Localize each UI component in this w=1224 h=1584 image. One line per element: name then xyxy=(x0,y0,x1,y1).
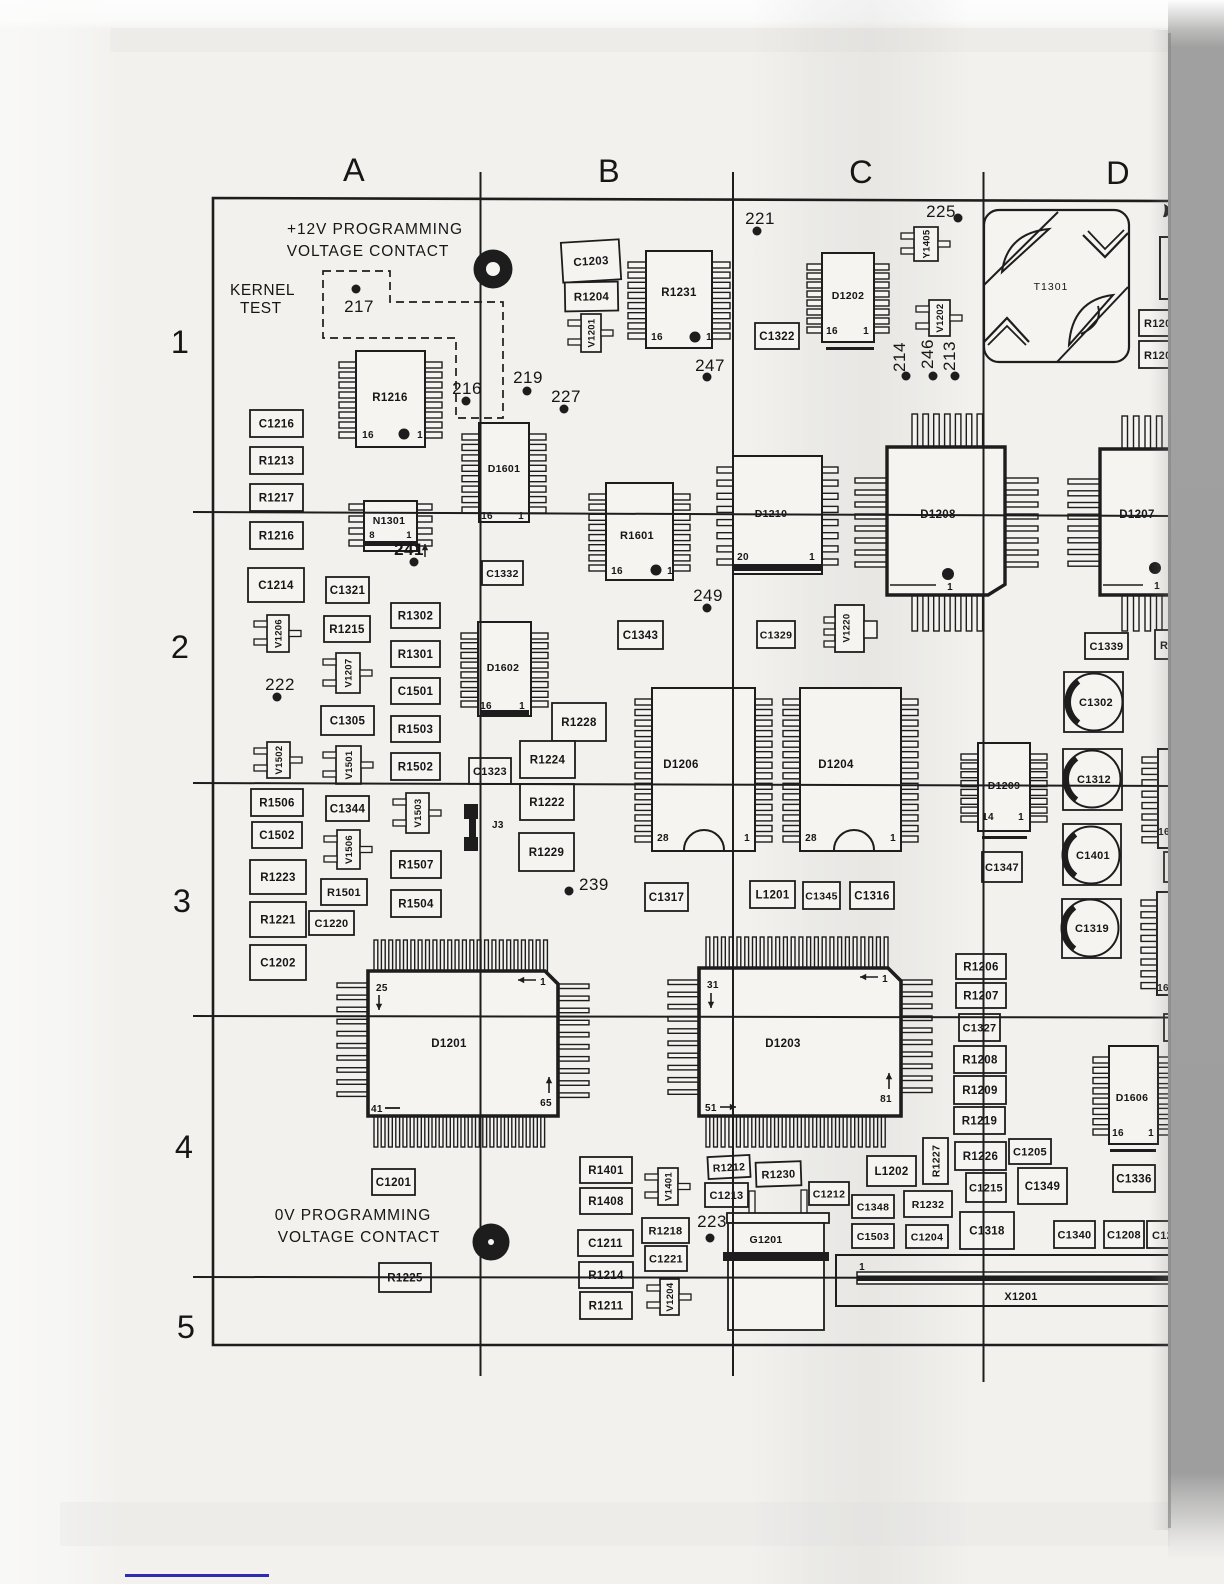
svg-text:C1213: C1213 xyxy=(710,1190,744,1202)
svg-text:D1204: D1204 xyxy=(818,759,854,771)
capacitor C1302 xyxy=(1064,672,1123,732)
svg-text:R1232: R1232 xyxy=(912,1199,944,1211)
resistor network R1231 xyxy=(628,251,730,348)
test point 217 xyxy=(344,285,374,317)
capacitor C1321 xyxy=(326,577,369,603)
svg-text:16: 16 xyxy=(826,326,838,337)
capacitor C1501 xyxy=(391,678,440,704)
capacitor C1348 xyxy=(852,1195,894,1218)
transistor V1202 xyxy=(916,300,962,336)
IC D1210 xyxy=(717,456,838,574)
svg-text:R1216: R1216 xyxy=(259,531,294,543)
svg-text:1: 1 xyxy=(859,1262,865,1273)
capacitor C1341 (clipped) xyxy=(1164,1014,1204,1041)
svg-text:VOLTAGE CONTACT: VOLTAGE CONTACT xyxy=(287,243,449,260)
svg-text:D1606: D1606 xyxy=(1116,1092,1148,1104)
transistor V1501 xyxy=(323,746,373,784)
IC D1204 xyxy=(783,688,918,851)
svg-text:B: B xyxy=(598,153,620,189)
capacitor C1503 xyxy=(852,1224,894,1248)
svg-text:C: C xyxy=(849,154,873,190)
test point 227 xyxy=(551,387,581,414)
test point 214 xyxy=(890,342,911,380)
test point 249 xyxy=(693,586,723,613)
capacitor C1312 xyxy=(1063,749,1122,810)
svg-text:R1504: R1504 xyxy=(398,899,434,911)
svg-text:R1219: R1219 xyxy=(962,1116,997,1128)
svg-text:222: 222 xyxy=(265,675,295,694)
svg-text:V1501: V1501 xyxy=(344,750,355,779)
grid line C/D xyxy=(983,172,985,1382)
resistor R1204 xyxy=(565,282,618,312)
capacitor C1211 xyxy=(578,1230,633,1256)
svg-text:C1336: C1336 xyxy=(1116,1174,1151,1186)
svg-text:R1222: R1222 xyxy=(529,797,564,809)
svg-text:4: 4 xyxy=(175,1129,193,1165)
svg-text:C1215: C1215 xyxy=(969,1183,1003,1195)
svg-text:5: 5 xyxy=(177,1309,195,1345)
svg-text:1: 1 xyxy=(171,324,189,360)
IC D1602 xyxy=(461,622,548,716)
column label C xyxy=(849,154,873,190)
svg-text:V1220: V1220 xyxy=(842,614,853,643)
IC D1605 (clipped) xyxy=(1142,749,1200,848)
resistor R1222 xyxy=(520,784,574,820)
IC D1203 xyxy=(668,937,932,1147)
inductor L1201 xyxy=(750,881,795,908)
svg-text:V1206: V1206 xyxy=(274,619,285,648)
svg-text:R1204: R1204 xyxy=(574,291,610,304)
resistor R1502 xyxy=(391,753,440,780)
svg-text:D1203: D1203 xyxy=(765,1038,800,1050)
transistor V1503 xyxy=(393,793,441,833)
svg-text:C1502: C1502 xyxy=(259,830,294,842)
svg-text:V1506: V1506 xyxy=(344,835,355,864)
svg-text:Y1405: Y1405 xyxy=(922,229,933,258)
svg-text:C1343: C1343 xyxy=(623,630,658,642)
resistor R1203 (clipped) xyxy=(1139,341,1185,368)
svg-text:C1204: C1204 xyxy=(911,1232,943,1244)
resistor R1208 xyxy=(954,1046,1006,1073)
svg-text:219: 219 xyxy=(513,368,543,387)
transistor V1401 xyxy=(645,1168,690,1205)
test point 223 xyxy=(697,1212,727,1243)
capacitor C1215 xyxy=(966,1173,1006,1202)
grid line 3/4 xyxy=(193,1016,1170,1018)
svg-text:241: 241 xyxy=(394,540,424,559)
svg-text:R1229: R1229 xyxy=(529,847,564,859)
svg-text:C1340: C1340 xyxy=(1058,1230,1092,1242)
svg-text:213: 213 xyxy=(940,341,959,371)
test point 225 xyxy=(926,202,962,223)
via 0V programming contact xyxy=(473,1224,510,1261)
svg-text:R1216: R1216 xyxy=(372,392,407,404)
svg-text:1: 1 xyxy=(706,332,712,343)
svg-text:R1228: R1228 xyxy=(561,717,597,729)
svg-text:R1213: R1213 xyxy=(259,456,294,468)
capacitor C1347 xyxy=(982,852,1022,882)
svg-text:V1502: V1502 xyxy=(274,746,285,775)
test point 241 xyxy=(394,540,424,567)
svg-text:8: 8 xyxy=(369,530,375,541)
svg-text:28: 28 xyxy=(805,833,817,844)
svg-text:R1206: R1206 xyxy=(963,962,998,974)
resistor R1501 xyxy=(321,879,367,905)
svg-text:3: 3 xyxy=(173,883,191,919)
svg-text:C1322: C1322 xyxy=(759,331,794,343)
svg-text:223: 223 xyxy=(697,1212,727,1231)
test point 213 xyxy=(940,341,960,380)
resistor R1206 xyxy=(956,954,1006,979)
resistor R1408 xyxy=(580,1188,632,1214)
svg-text:D1602: D1602 xyxy=(487,662,519,674)
resistor R1213 xyxy=(250,447,303,474)
svg-text:1: 1 xyxy=(417,430,423,441)
svg-text:R1208: R1208 xyxy=(962,1055,998,1067)
grid line 4/5 xyxy=(193,1277,1170,1278)
svg-text:1: 1 xyxy=(1018,812,1024,823)
svg-text:C1312: C1312 xyxy=(1077,774,1111,786)
row label 2 xyxy=(171,629,189,665)
IC D1206 xyxy=(635,688,772,851)
svg-text:216: 216 xyxy=(452,379,482,398)
svg-text:16: 16 xyxy=(611,566,623,577)
svg-text:31: 31 xyxy=(707,980,719,991)
svg-text:V1201: V1201 xyxy=(587,318,598,347)
svg-text:1: 1 xyxy=(744,833,750,844)
svg-text:R1302: R1302 xyxy=(398,611,433,623)
page edge gray band xyxy=(1150,0,1224,1584)
svg-text:C1501: C1501 xyxy=(398,686,434,698)
test point 239 xyxy=(565,875,609,896)
capacitor C1204 xyxy=(906,1225,948,1248)
capacitor C1336 xyxy=(1113,1165,1155,1192)
ink fleck at page edge xyxy=(1163,204,1169,217)
svg-text:C1339: C1339 xyxy=(1090,641,1124,653)
label kernel test line 1 xyxy=(230,282,295,299)
notch of D1206 xyxy=(684,830,724,850)
capacitor C1401 xyxy=(1063,824,1122,885)
svg-text:221: 221 xyxy=(745,209,775,228)
svg-text:R1218: R1218 xyxy=(649,1226,683,1238)
svg-text:D1202: D1202 xyxy=(832,290,864,302)
svg-text:R1207: R1207 xyxy=(963,991,998,1003)
svg-text:D1601: D1601 xyxy=(488,463,520,475)
svg-text:1: 1 xyxy=(519,701,525,712)
IC D1607 (clipped) xyxy=(1141,892,1199,995)
svg-text:2: 2 xyxy=(171,629,189,665)
resistor R1401 xyxy=(580,1157,632,1183)
resistor R1224 xyxy=(520,741,575,778)
svg-text:28: 28 xyxy=(657,833,669,844)
transistor V1502 xyxy=(254,742,302,778)
svg-text:TEST: TEST xyxy=(240,300,282,317)
svg-text:65: 65 xyxy=(540,1098,552,1109)
inductor L1202 xyxy=(867,1156,916,1186)
svg-text:C1316: C1316 xyxy=(854,891,889,903)
svg-text:1: 1 xyxy=(882,974,888,985)
IC D1601 xyxy=(462,423,546,522)
svg-text:C1321: C1321 xyxy=(330,585,366,597)
test point 219 xyxy=(513,368,543,396)
label 0V programming voltage contact line 1 xyxy=(275,1207,431,1224)
IC D1207 xyxy=(1068,416,1224,631)
board outline border xyxy=(213,198,1170,1345)
resistor R1214 xyxy=(579,1262,633,1288)
svg-text:C1203: C1203 xyxy=(573,255,609,269)
resistor R1507 xyxy=(391,851,441,878)
svg-text:R1224: R1224 xyxy=(530,755,566,767)
transistor V1207 xyxy=(323,653,372,693)
svg-text:214: 214 xyxy=(890,342,909,372)
grid line 2/3 xyxy=(193,783,1170,786)
capacitor C1332 xyxy=(482,561,523,585)
svg-text:R1408: R1408 xyxy=(588,1196,624,1208)
grid line A/B xyxy=(480,172,482,1376)
capacitor C1212 xyxy=(809,1182,849,1205)
transistor V1206 xyxy=(254,615,301,652)
resistor network R1216 xyxy=(339,351,442,447)
capacitor C1323 xyxy=(469,758,511,784)
notch of D1204 xyxy=(834,830,874,850)
svg-text:T1301: T1301 xyxy=(1034,281,1069,293)
column label D xyxy=(1106,155,1130,191)
svg-text:V1207: V1207 xyxy=(344,659,355,688)
svg-text:227: 227 xyxy=(551,387,581,406)
row label 1 xyxy=(171,324,189,360)
resistor R1217 xyxy=(250,484,303,511)
svg-text:V1204: V1204 xyxy=(665,1282,676,1311)
transistor V1220 xyxy=(824,605,877,652)
test point 216 xyxy=(452,379,482,406)
resistor R1221 xyxy=(250,902,306,937)
capacitor C1502 xyxy=(252,822,302,848)
svg-text:16: 16 xyxy=(480,701,492,712)
capacitor C1316 xyxy=(850,882,894,909)
svg-text:R1506: R1506 xyxy=(259,798,294,810)
svg-text:V1202: V1202 xyxy=(935,304,946,333)
svg-text:239: 239 xyxy=(579,875,609,894)
svg-text:C1345: C1345 xyxy=(805,891,837,903)
blue underline mark xyxy=(125,1574,269,1577)
resistor R1207 xyxy=(956,983,1006,1008)
svg-text:1: 1 xyxy=(863,326,869,337)
battery G1201 xyxy=(723,1190,829,1330)
svg-text:C1318: C1318 xyxy=(969,1226,1005,1238)
svg-text:R1507: R1507 xyxy=(398,860,433,872)
resistor R1209 xyxy=(954,1076,1006,1104)
svg-text:C1348: C1348 xyxy=(857,1202,889,1214)
svg-text:246: 246 xyxy=(918,339,937,369)
resistor R1228 xyxy=(552,703,606,741)
svg-text:R1401: R1401 xyxy=(588,1165,624,1177)
resistor R1212 xyxy=(707,1155,750,1179)
capacitor C1305 xyxy=(321,706,374,735)
svg-text:J3: J3 xyxy=(492,820,504,831)
capacitor C1213 xyxy=(705,1183,748,1207)
grid line B/C xyxy=(732,172,734,1376)
capacitor C1201 xyxy=(372,1169,415,1195)
svg-text:N1301: N1301 xyxy=(373,515,405,527)
test point 246 xyxy=(918,339,938,380)
svg-text:C1302: C1302 xyxy=(1079,697,1113,709)
svg-text:R1226: R1226 xyxy=(963,1151,998,1163)
svg-text:C1503: C1503 xyxy=(857,1231,889,1243)
test point 222 xyxy=(265,675,295,702)
svg-text:L1202: L1202 xyxy=(874,1166,908,1178)
svg-text:D1206: D1206 xyxy=(663,759,698,771)
svg-text:C1201: C1201 xyxy=(376,1177,412,1189)
svg-text:D1201: D1201 xyxy=(431,1038,467,1050)
svg-text:R1211: R1211 xyxy=(589,1301,624,1313)
svg-text:C1327: C1327 xyxy=(963,1023,997,1035)
resistor R1230 xyxy=(756,1161,802,1187)
svg-text:C1323: C1323 xyxy=(473,766,507,778)
capacitor C1343 xyxy=(618,621,663,649)
column label B xyxy=(598,153,620,189)
svg-text:C1216: C1216 xyxy=(259,419,294,431)
svg-text:R1231: R1231 xyxy=(661,287,697,299)
svg-text:C1317: C1317 xyxy=(649,892,684,904)
capacitor C1216 xyxy=(250,410,303,437)
label +12V programming voltage contact line 1 xyxy=(287,221,463,238)
IC D1201 xyxy=(337,940,589,1147)
svg-text:C1221: C1221 xyxy=(649,1254,683,1266)
svg-text:1: 1 xyxy=(667,566,673,577)
svg-text:L1201: L1201 xyxy=(755,890,789,902)
resistor R1219 xyxy=(954,1107,1005,1134)
resistor R1229 xyxy=(519,833,574,871)
transistor V1204 xyxy=(647,1279,691,1315)
svg-text:G1201: G1201 xyxy=(749,1234,782,1246)
resistor R1504 xyxy=(391,890,441,917)
svg-text:1: 1 xyxy=(890,833,896,844)
svg-text:R1501: R1501 xyxy=(327,887,361,899)
via +12V programming contact xyxy=(474,250,513,289)
resistor R1218 xyxy=(642,1218,689,1243)
resistor R1232 xyxy=(904,1191,952,1217)
resistor R1205 (clipped) xyxy=(1155,630,1195,659)
capacitor C1220 xyxy=(309,911,354,935)
capacitor C1203 xyxy=(561,239,621,282)
svg-text:217: 217 xyxy=(344,297,374,316)
svg-text:R1217: R1217 xyxy=(259,493,294,505)
capacitor C1344 xyxy=(326,796,369,821)
svg-text:16: 16 xyxy=(362,430,374,441)
capacitor C1327 xyxy=(959,1014,1000,1041)
svg-text:C1347: C1347 xyxy=(985,862,1019,874)
svg-text:C1212: C1212 xyxy=(813,1189,845,1201)
row label 4 xyxy=(175,1129,193,1165)
svg-text:V1503: V1503 xyxy=(413,799,424,828)
svg-text:R1227: R1227 xyxy=(931,1145,943,1177)
IC N1301 xyxy=(349,501,432,551)
resistor R1215 xyxy=(324,616,370,642)
svg-text:R1301: R1301 xyxy=(398,649,434,661)
dashed kernel test contact outline xyxy=(323,271,503,418)
svg-text:225: 225 xyxy=(926,202,956,221)
svg-text:C1401: C1401 xyxy=(1076,850,1110,862)
label voltage contact line 2 xyxy=(287,243,449,260)
resistor R1202 (clipped) xyxy=(1139,310,1185,336)
svg-text:C1332: C1332 xyxy=(486,568,518,580)
resistor R1223 xyxy=(250,860,306,894)
svg-text:R1223: R1223 xyxy=(260,872,295,884)
label kernel test line 2 xyxy=(240,300,282,317)
grid line 1/2 xyxy=(193,512,1170,516)
connector X1201 xyxy=(836,1255,1224,1306)
svg-text:A: A xyxy=(343,152,365,188)
capacitor C1345 xyxy=(803,882,840,909)
svg-text:C1344: C1344 xyxy=(330,804,366,816)
svg-text:D: D xyxy=(1106,155,1130,191)
IC D1208 xyxy=(855,414,1038,631)
capacitor C1206 (clipped) xyxy=(1147,1221,1187,1248)
svg-text:C1319: C1319 xyxy=(1075,923,1109,935)
svg-text:C1208: C1208 xyxy=(1107,1230,1141,1242)
svg-text:247: 247 xyxy=(695,356,725,375)
svg-text:41: 41 xyxy=(371,1104,383,1115)
capacitor C1214 xyxy=(248,568,304,602)
capacitor C1319 xyxy=(1062,899,1122,958)
capacitor C1339 xyxy=(1085,633,1128,659)
svg-text:81: 81 xyxy=(880,1094,892,1105)
svg-text:R1225: R1225 xyxy=(387,1273,423,1285)
capacitor C1317 xyxy=(645,883,688,911)
transistor Y1405 xyxy=(901,227,950,261)
svg-text:R1214: R1214 xyxy=(588,1270,624,1282)
svg-text:20: 20 xyxy=(737,552,749,563)
svg-text:X1201: X1201 xyxy=(1004,1291,1037,1303)
row label 3 xyxy=(173,883,191,919)
capacitor C1340 xyxy=(1054,1221,1095,1248)
svg-text:R1230: R1230 xyxy=(761,1168,795,1181)
jumper J3 xyxy=(464,804,504,851)
svg-text:C1214: C1214 xyxy=(258,580,294,592)
capacitor C1322 xyxy=(755,323,799,349)
IC D1606 xyxy=(1093,1046,1174,1152)
transistor V1506 xyxy=(324,830,372,869)
svg-text:1: 1 xyxy=(947,582,953,593)
svg-text:C1205: C1205 xyxy=(1013,1147,1047,1159)
capacitor C1329 xyxy=(757,621,795,648)
svg-text:R1215: R1215 xyxy=(329,624,365,636)
svg-text:C1211: C1211 xyxy=(588,1238,623,1250)
svg-text:16: 16 xyxy=(651,332,663,343)
capacitor C1208 xyxy=(1104,1221,1144,1248)
IC D1209 xyxy=(961,743,1047,839)
capacitor C1205 xyxy=(1009,1139,1051,1164)
resistor R1225 xyxy=(379,1263,431,1292)
svg-text:R1503: R1503 xyxy=(398,724,433,736)
test point 247 xyxy=(695,356,725,382)
svg-text:R1221: R1221 xyxy=(260,915,296,927)
capacitor C1346 (clipped) xyxy=(1164,852,1204,882)
transistor V1201 xyxy=(568,314,613,352)
transformer T1301 xyxy=(983,210,1129,362)
resistor R1216 xyxy=(250,522,303,549)
label 0V voltage contact line 2 xyxy=(278,1229,440,1246)
resistor R1226 xyxy=(955,1142,1006,1170)
test point 221 xyxy=(745,209,775,236)
svg-text:0V PROGRAMMING: 0V PROGRAMMING xyxy=(275,1207,431,1224)
resistor R1211 xyxy=(580,1292,632,1319)
svg-text:C1329: C1329 xyxy=(760,630,792,642)
svg-text:+12V PROGRAMMING: +12V PROGRAMMING xyxy=(287,221,463,238)
svg-text:249: 249 xyxy=(693,586,723,605)
capacitor C1318 xyxy=(960,1212,1014,1249)
resistor network R1601 xyxy=(589,483,690,580)
